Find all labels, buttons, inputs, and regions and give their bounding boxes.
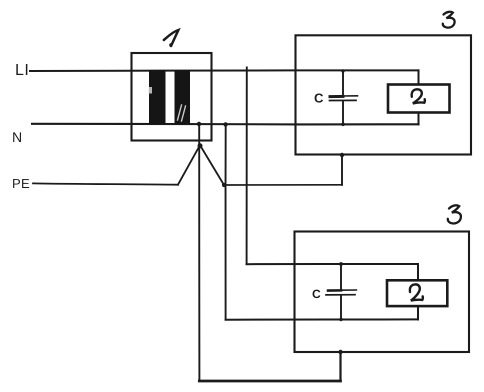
svg-text:C: C (312, 287, 321, 301)
capacitor C (top) top plate (330, 95, 343, 98)
capacitor C (top) bottom plate (330, 99, 357, 101)
node cap top junction (341, 69, 344, 72)
label 3 (top, handwritten) (443, 12, 455, 28)
transformer T1 bar scribble highlights (178, 105, 186, 121)
transformer T1 box (132, 53, 212, 141)
node cap bottom junction (bottom box) (339, 318, 342, 321)
node cap bottom junction (341, 123, 345, 127)
filter enclosure box 3 (top) (296, 35, 472, 154)
svg-text:N: N (12, 129, 22, 145)
wire inner loop right edge (bottom box, upper part) (417, 264, 419, 281)
wire PE left segment (33, 183, 178, 184)
node junction blob box3 top PE (340, 153, 344, 157)
node junction blob box3 bottom PE (338, 350, 342, 354)
wire N branch drop x225.6 (225, 124, 227, 319)
node dot on N second tap (223, 122, 227, 126)
wire N line (32, 123, 419, 126)
svg-text:PE: PE (12, 176, 30, 191)
node cap top junction (bottom box) (339, 262, 343, 266)
wire inner loop right edge (bottom box, lower part) (417, 306, 419, 320)
label 2 (bottom, handwritten) (410, 284, 423, 300)
svg-text:LI: LI (15, 62, 29, 79)
node apex junction blob (198, 143, 203, 148)
capacitor C (top) lower stub (342, 101, 344, 124)
label 2 (top, handwritten) (412, 89, 425, 103)
filter enclosure box 3 (bottom) (295, 232, 470, 353)
transformer T1 left core bar (149, 70, 166, 125)
wire lower feed horizontal y264 (247, 263, 418, 265)
transformer T1 right core bar (175, 70, 191, 125)
capacitor C (top) upper stub (342, 71, 344, 94)
wire PE diagonal right (201, 146, 225, 185)
label 3 (bottom, handwritten) (448, 205, 461, 223)
wire PE right segment (224, 184, 342, 186)
capacitor C (bottom) lower stub (340, 296, 342, 320)
wire bottom PE rail (199, 380, 340, 383)
wire PE riser to top filter box (341, 155, 343, 185)
wire bottom PE riser to lower filter box (339, 352, 341, 381)
capacitor C (bottom) bottom plate (326, 294, 355, 296)
wire inner loop right edge (top box, lower part) (418, 112, 420, 124)
wire shield drop x199 (N dot to bottom rail) (198, 124, 200, 381)
transformer T1 left bar light notch (149, 87, 152, 94)
wire lower feed horizontal y319.5 (226, 318, 418, 320)
node junction blob PE/diagonal (222, 183, 226, 187)
svg-text:C: C (314, 91, 324, 106)
load box 2 (bottom) (387, 280, 447, 306)
wire inner loop right edge (top box, upper part) (418, 70, 420, 85)
wire PE diagonal left (178, 146, 200, 185)
wire L branch drop x246.7 (246, 68, 248, 265)
capacitor C (bottom) top plate (328, 289, 341, 292)
node dot on N at shield tap (197, 122, 201, 126)
capacitor C (bottom) upper stub (340, 264, 342, 290)
label 1 (handwritten) (164, 30, 179, 46)
wire L line (30, 69, 419, 72)
load box 2 (top) (388, 85, 450, 113)
